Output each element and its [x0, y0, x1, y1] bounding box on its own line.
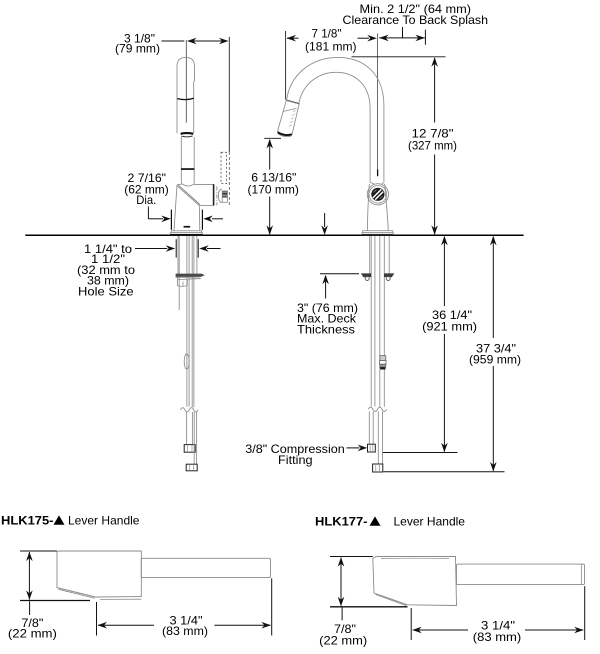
right tube to fitting	[368, 411, 370, 444]
spray tip tick	[264, 137, 281, 139]
hlk177 dim line right	[525, 629, 583, 631]
left faucet body hub right edge	[213, 184, 215, 205]
ref line 36	[383, 452, 458, 454]
svg-text:(327 mm): (327 mm)	[408, 139, 457, 153]
left mounting plate	[176, 274, 205, 277]
left mounting clamp	[177, 277, 187, 286]
svg-text:Lever Handle: Lever Handle	[68, 514, 140, 528]
dim 12 7/8 lower segment	[434, 155, 436, 235]
hlk177 hatched diagonal	[376, 594, 407, 605]
svg-text:Clearance To Back Splash: Clearance To Back Splash	[343, 13, 489, 27]
dim hole size leader line	[135, 248, 167, 250]
logo button outer circle	[367, 184, 388, 205]
dim hole size right arrowhead	[199, 245, 209, 252]
compression fitting arrow	[347, 447, 360, 449]
left spout tube	[180, 137, 182, 183]
dim 12 7/8 upper segment	[434, 58, 436, 123]
dim 7 1/8 left arrowhead	[287, 35, 297, 42]
hlk177 dim 7/8 bottom tick	[330, 606, 408, 608]
deck reference arrow	[324, 213, 326, 227]
svg-text:(83 mm): (83 mm)	[162, 624, 208, 638]
left shank outer walls	[177, 236, 179, 274]
dim 6 13/16 upper arrowhead	[266, 139, 273, 149]
right compression fitting	[368, 444, 376, 452]
hlk175 dim line right	[214, 624, 270, 626]
svg-text:(181 mm): (181 mm)	[305, 40, 357, 54]
spray head body	[278, 100, 300, 136]
left tube-body fillet	[181, 183, 194, 186]
right center tubes lower	[377, 411, 379, 464]
dim 36 1/4 lower	[443, 334, 445, 452]
hlk177 lever arm	[457, 564, 585, 585]
dim 7 1/8 left ext line	[285, 31, 287, 100]
hlk175 dim line left	[98, 622, 108, 629]
left supply tubes	[186, 236, 188, 407]
right gooseneck outer curve	[287, 57, 384, 115]
svg-text:(79 mm): (79 mm)	[115, 42, 160, 56]
dim hole size left arrowhead	[166, 245, 176, 252]
dim dia left arrowhead	[161, 216, 171, 223]
right spray head joint	[286, 100, 299, 104]
hlk175 dim 7/8 bottom tick	[20, 600, 90, 602]
svg-text:HLK177-: HLK177-	[315, 515, 368, 529]
hlk175 dim 3 1/4 left ext	[96, 602, 98, 636]
svg-text:Lever Handle: Lever Handle	[394, 515, 466, 529]
hlk177 body top inner line	[381, 557, 449, 559]
clearance dim line	[379, 37, 425, 39]
left faucet body left edge	[174, 185, 177, 231]
dim hole size right tick	[197, 239, 199, 257]
quick connect fitting	[380, 356, 386, 361]
hlk175 dim 7/8 arrow	[28, 552, 30, 600]
right shank outer walls	[369, 236, 371, 273]
right supply tubes upper	[370, 236, 372, 407]
dim 12 7/8 lower arrowhead	[431, 225, 438, 235]
right spout column	[369, 115, 371, 182]
dim 7 1/8 left tail	[287, 37, 299, 39]
dim deck thickness tick	[320, 273, 359, 275]
left handle dashed travel box	[221, 152, 227, 183]
spray head tip cap	[278, 132, 292, 135]
left base flange	[172, 231, 202, 233]
left base button mark	[184, 226, 191, 228]
svg-text:(170 mm): (170 mm)	[248, 182, 299, 196]
hlk175 7/8 lower extension	[29, 601, 31, 615]
dim hole size left tick	[175, 239, 177, 257]
right base flange	[363, 231, 393, 233]
dim 3 1/8 left arrowhead	[187, 38, 197, 45]
title HLK177 triangle	[370, 516, 381, 525]
svg-text:Fitting: Fitting	[278, 453, 313, 467]
logo button knurled disc	[371, 188, 384, 201]
left faucet spray wand outline	[177, 57, 195, 133]
hlk175 hatched diagonal	[59, 589, 96, 598]
svg-text:HLK175-: HLK175-	[1, 514, 54, 528]
svg-text:(921 mm): (921 mm)	[422, 319, 477, 333]
svg-text:(22 mm): (22 mm)	[319, 633, 367, 647]
dim hole size right tail	[207, 248, 221, 250]
right column collar	[370, 182, 385, 184]
left hose line	[178, 236, 180, 310]
left wand aerator band	[181, 132, 194, 135]
hlk177 dim 7/8 arrow	[340, 558, 342, 606]
right wing nut left	[361, 273, 371, 277]
right wing nut right	[384, 273, 394, 277]
left faucet base right edge	[198, 206, 200, 231]
spray head grip hatches	[293, 110, 295, 112]
svg-text:(959 mm): (959 mm)	[469, 353, 521, 367]
dim 37 3/4 lower	[492, 366, 494, 471]
left spout joint band	[181, 168, 195, 170]
dim dia leader	[147, 207, 149, 219]
svg-text:Dia.: Dia.	[136, 193, 156, 207]
dim 6 13/16 upper segment	[269, 140, 271, 170]
dim 3 1/8 right arrowhead	[219, 38, 229, 45]
left tube to fitting	[186, 412, 188, 445]
left faucet body diagonal face	[177, 186, 199, 206]
svg-text:(83 mm): (83 mm)	[473, 630, 522, 644]
hlk177 7/8 lower extension	[341, 608, 343, 621]
dim 6 13/16 lower arrowhead	[266, 225, 273, 235]
right body sides	[367, 184, 369, 231]
dim deck thickness arrow	[325, 276, 327, 299]
hlk175 lever arm	[141, 558, 270, 577]
hlk177 dim 3 1/4 left ext	[410, 608, 412, 640]
right faucet centerline	[377, 34, 379, 170]
left faucet body bottom	[199, 205, 213, 207]
dim dia right tick	[201, 210, 203, 230]
hlk175 body	[57, 551, 141, 597]
left handle knob	[218, 189, 222, 203]
left break squiggle	[181, 408, 199, 412]
left bottom hex nut	[186, 464, 197, 471]
hlk177 body	[373, 557, 457, 606]
left wand seam line	[177, 98, 194, 99]
clearance right arrowhead	[415, 35, 425, 42]
svg-text:(22 mm): (22 mm)	[8, 627, 57, 641]
dim 36 1/4 upper	[441, 236, 448, 246]
left compression fitting	[184, 445, 195, 453]
hlk177 dim 7/8 top tick	[330, 556, 373, 558]
clearance left arrowhead	[379, 35, 389, 42]
dim 3 1/8 extension line	[228, 37, 230, 152]
right bottom hex nut	[373, 464, 383, 472]
dim 6 13/16 lower segment	[269, 197, 271, 235]
svg-text:7 1/8": 7 1/8"	[312, 26, 342, 40]
dim 12 7/8 upper arrowhead	[431, 57, 438, 67]
left hose weight clip	[184, 354, 189, 369]
hlk177 dim line left	[412, 627, 422, 634]
left faucet body top	[177, 183, 181, 185]
svg-text:Thickness: Thickness	[297, 323, 355, 337]
left right tube	[193, 412, 195, 464]
dim 3 1/8 leader	[162, 40, 185, 42]
hlk177 dim 3 1/4 right ext	[584, 586, 586, 640]
title HLK175 triangle	[54, 515, 65, 524]
spray head mid seam	[283, 108, 297, 111]
ref line 37	[384, 471, 505, 473]
svg-text:Hole Size: Hole Size	[78, 285, 134, 299]
backsplash tick	[424, 30, 426, 45]
dim 3 1/8 arrow line	[188, 40, 228, 42]
dim 7 1/8 right segment	[358, 37, 370, 39]
left faucet centerline	[185, 40, 187, 123]
logo button ring	[369, 186, 387, 204]
left handle dash-dot extension	[228, 152, 230, 206]
top height extension line	[352, 56, 446, 58]
hlk175 dim 7/8 top tick	[20, 550, 57, 552]
right break squiggle	[368, 407, 386, 411]
countertop deck line	[25, 234, 523, 236]
hlk175 body bottom double line	[100, 598, 141, 600]
hlk175 dim 3 1/4 right ext	[271, 578, 273, 635]
right gooseneck inner curve	[299, 72, 370, 115]
dim dia left tick	[170, 210, 172, 230]
hlk177 lever end cap	[581, 564, 583, 584]
dim 7 1/8 right arrowhead	[367, 35, 377, 42]
dim 37 3/4 upper	[490, 236, 497, 246]
clearance leader	[402, 27, 404, 38]
dim dia right tail	[212, 218, 223, 220]
dim dia right arrowhead	[203, 216, 213, 223]
